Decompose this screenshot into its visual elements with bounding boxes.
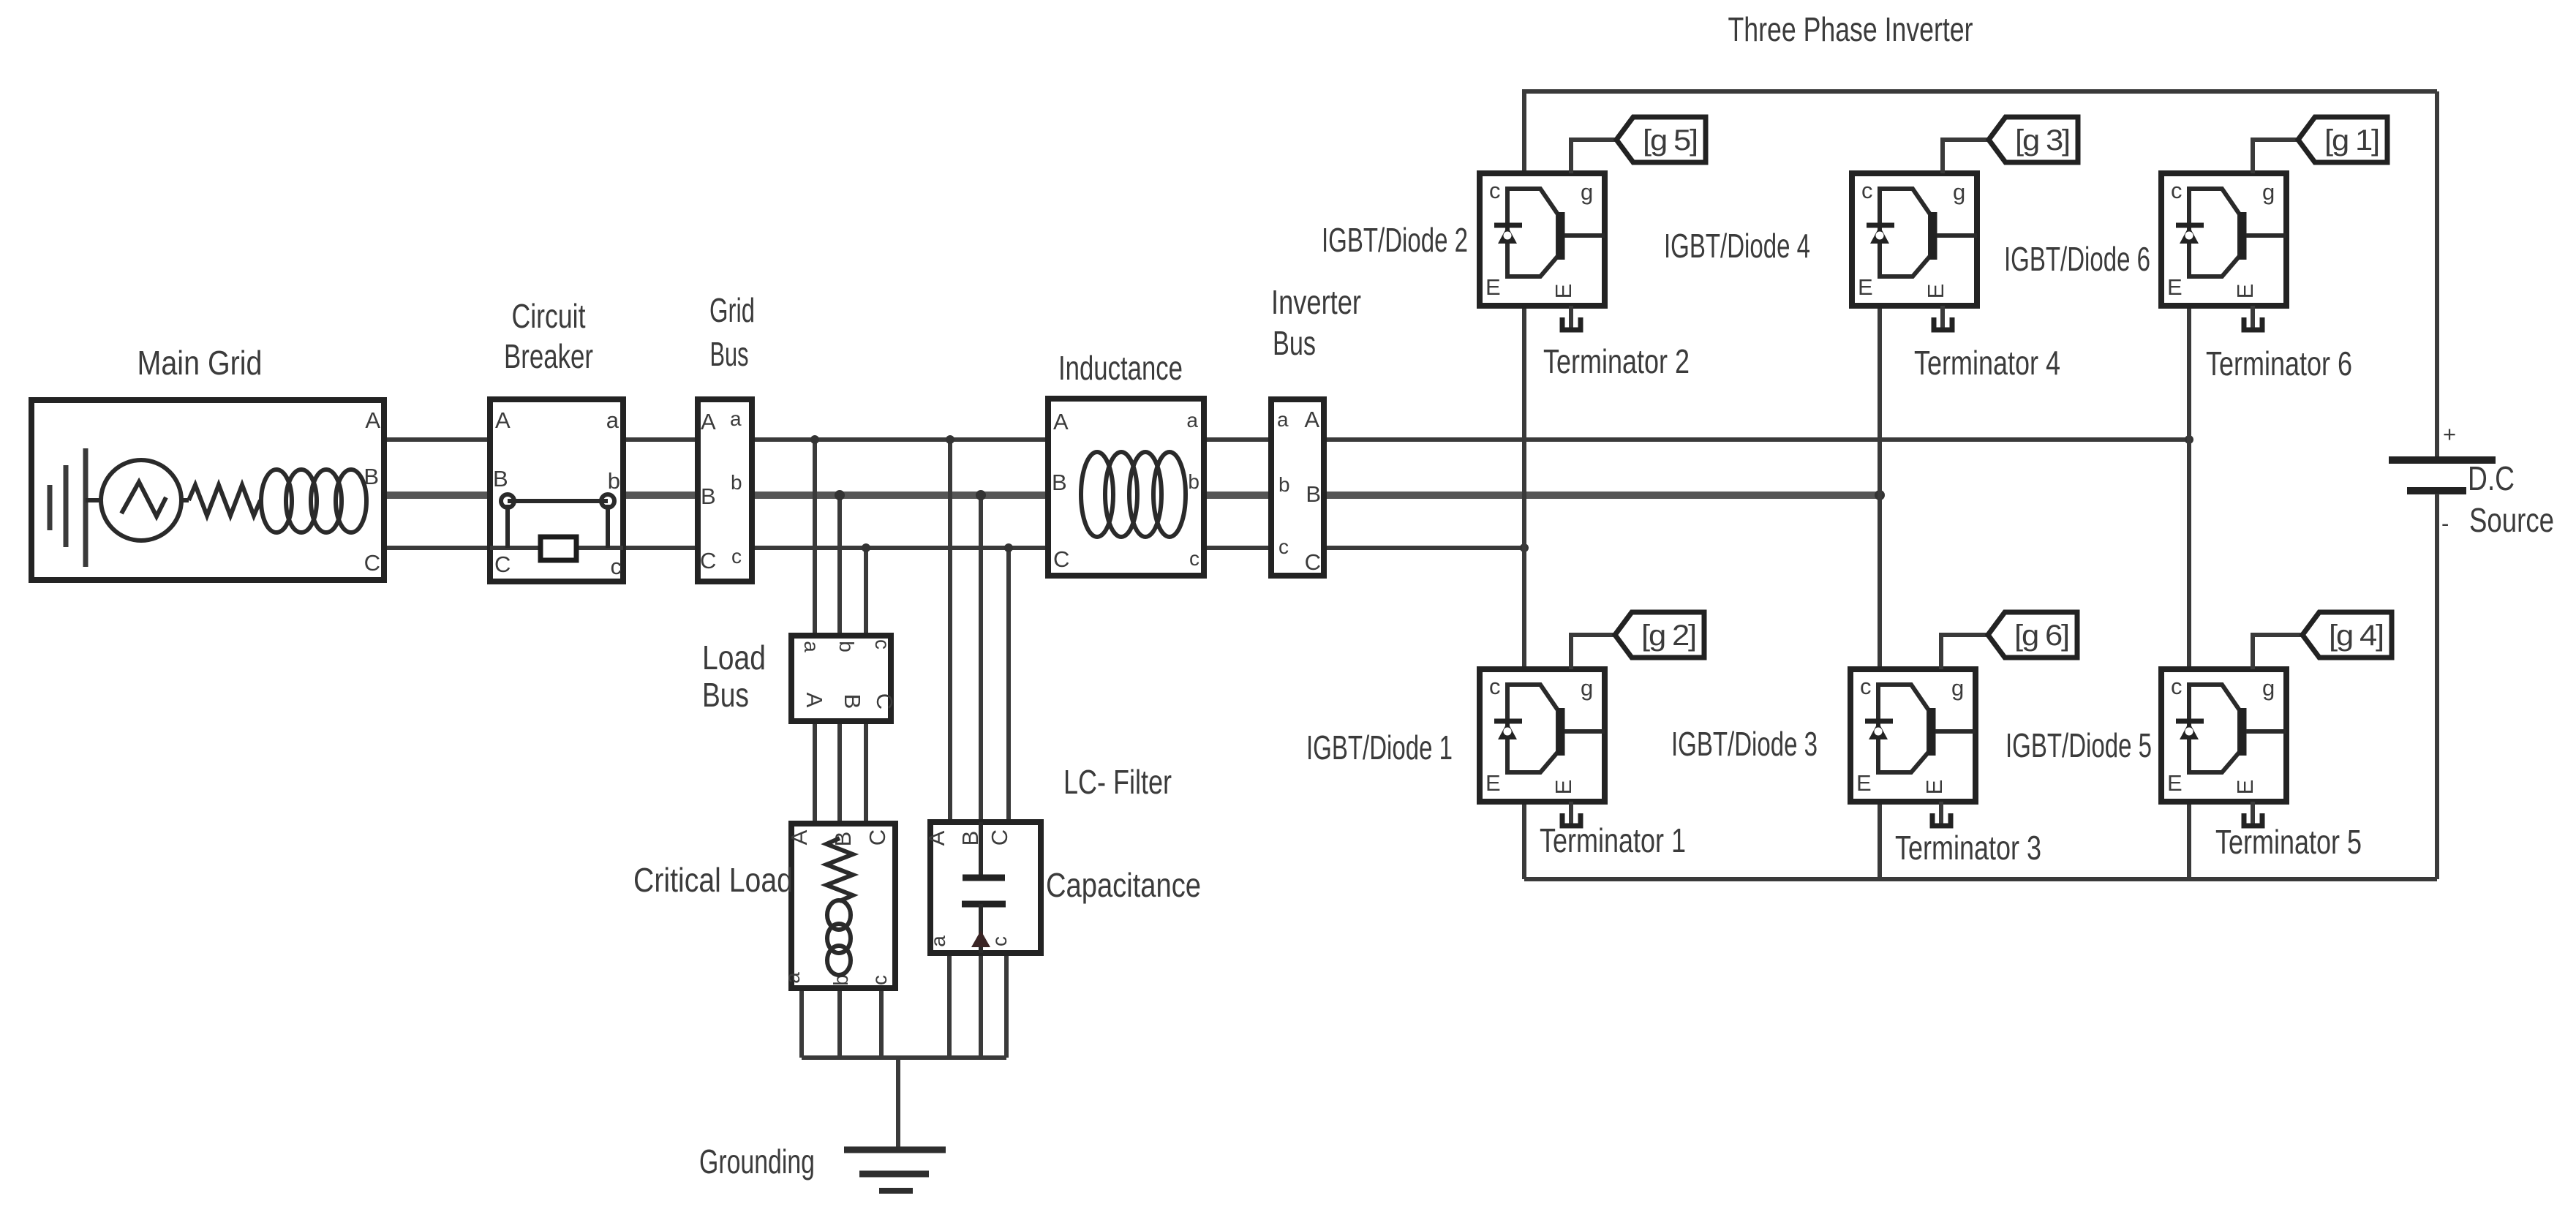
svg-text:B: B	[364, 464, 379, 489]
breaker contact line	[508, 499, 608, 503]
series inductor coil	[261, 470, 366, 532]
wire phase C: grid bus to inductance	[752, 546, 1048, 550]
junction phase A / load bus tap	[810, 435, 819, 444]
svg-text:IGBT/Diode 6: IGBT/Diode 6	[2004, 240, 2150, 278]
wire phase A: grid bus to inductance	[752, 437, 1048, 442]
wire load bus to critical load B	[837, 721, 842, 824]
wire capacitance b to ground bus	[979, 953, 983, 1058]
svg-text:A: A	[495, 407, 511, 433]
svg-text:LC- Filter: LC- Filter	[1063, 763, 1172, 801]
wire to AC source	[86, 498, 102, 502]
wire leg1 mid (IGBT2 E to IGBT1 c)	[1522, 306, 1526, 669]
svg-text:[g 2]: [g 2]	[1641, 620, 1695, 652]
svg-text:[g 3]: [g 3]	[2015, 124, 2069, 157]
svg-text:A: A	[924, 830, 949, 846]
wire phase B: grid bus to inductance	[752, 492, 1048, 499]
svg-text:a: a	[781, 972, 804, 984]
block Capacitance	[924, 822, 1041, 953]
wire source to resistor	[181, 498, 189, 502]
svg-text:a: a	[606, 407, 619, 433]
wire critical load b to ground bus	[837, 988, 842, 1058]
svg-text:c: c	[871, 639, 894, 649]
terminator 2	[1562, 306, 1581, 330]
svg-text:B: B	[1052, 470, 1067, 495]
goto tag g3	[1989, 117, 2078, 162]
svg-text:B: B	[701, 483, 716, 509]
svg-text:C: C	[364, 550, 380, 576]
wire phase B: inverter bus to inverter leg 2	[1324, 492, 1880, 499]
inductance coil	[1081, 452, 1186, 537]
svg-text:A: A	[802, 693, 827, 708]
svg-text:C: C	[1053, 546, 1069, 572]
svg-text:b: b	[608, 468, 620, 494]
goto tag g6 wire	[1941, 635, 1988, 669]
wire phase B: main grid to breaker	[384, 492, 490, 499]
block Main Grid	[31, 400, 384, 580]
svg-text:IGBT/Diode 3: IGBT/Diode 3	[1671, 725, 1818, 763]
svg-text:a: a	[800, 641, 823, 652]
svg-text:Inductance: Inductance	[1058, 349, 1183, 387]
svg-text:IGBT/Diode 4: IGBT/Diode 4	[1664, 227, 1810, 265]
svg-text:[g 5]: [g 5]	[1643, 124, 1697, 157]
DC source battery	[2389, 91, 2496, 879]
goto tag g5 wire	[1571, 140, 1616, 173]
wire capacitance a to ground bus	[947, 953, 952, 1058]
svg-text:c: c	[868, 975, 891, 985]
wire phase B: inductance to inverter bus	[1204, 492, 1271, 499]
breaker coil rectangle	[541, 537, 576, 560]
wire tap B to load bus	[837, 495, 842, 636]
svg-text:C: C	[872, 693, 897, 709]
breaker left stub	[505, 505, 510, 548]
wire ground stem	[896, 1058, 900, 1150]
terminator 3	[1932, 802, 1951, 826]
wire tap B to capacitance	[979, 495, 983, 822]
AC source sine	[121, 482, 166, 516]
svg-text:Bus: Bus	[1273, 324, 1316, 362]
ground symbol	[844, 1150, 946, 1191]
svg-text:IGBT/Diode 2: IGBT/Diode 2	[1322, 221, 1468, 259]
svg-text:D.C: D.C	[2468, 459, 2515, 497]
ground bus wire	[802, 1055, 1006, 1060]
block Critical Load	[781, 824, 895, 988]
wire capacitance c to ground bus	[1004, 953, 1009, 1058]
svg-text:c: c	[1278, 535, 1289, 558]
breaker C through line	[490, 546, 623, 550]
critical load resistor	[826, 838, 853, 901]
wire leg2 bottom (IGBT3 E to rail)	[1878, 802, 1882, 879]
block Inductance	[1048, 399, 1204, 576]
svg-text:C: C	[700, 548, 716, 573]
DC+ top rail	[1524, 91, 2437, 173]
block Grid Bus	[698, 399, 752, 581]
junction phase A / inverter leg 3	[2185, 435, 2193, 444]
wire critical load c to ground bus	[879, 988, 884, 1058]
svg-text:+: +	[2443, 421, 2456, 447]
junction phase C / capacitance tap	[1004, 543, 1013, 552]
breaker right contact circle	[601, 494, 614, 508]
svg-text:Circuit: Circuit	[512, 297, 586, 335]
arrow at port b	[971, 930, 990, 947]
goto tag g2 wire	[1571, 635, 1615, 669]
terminator 4	[1934, 306, 1952, 330]
wire phase C: inverter bus to inverter leg 1	[1324, 546, 1524, 550]
wire leg2 mid (IGBT4 E to IGBT3 c)	[1878, 306, 1882, 669]
svg-text:Bus: Bus	[710, 335, 749, 373]
goto tag g5	[1616, 117, 1706, 162]
svg-text:c: c	[731, 545, 742, 568]
wire critical load a to ground bus	[799, 988, 804, 1058]
wire tap C to load bus	[864, 548, 868, 636]
wire phase C: main grid to breaker	[384, 546, 490, 550]
AC source circle	[101, 460, 181, 541]
wire leg1 bottom (IGBT1 E to rail)	[1522, 802, 1526, 879]
IGBT/Diode 6 block	[2161, 173, 2286, 306]
svg-text:Main Grid: Main Grid	[138, 344, 263, 382]
junction phase C / load bus tap	[862, 543, 870, 552]
junction phase B / inverter leg 2	[1875, 490, 1885, 500]
goto tag g1 wire	[2253, 140, 2298, 173]
svg-text:Load: Load	[702, 639, 766, 677]
junction phase B / capacitance tap	[976, 490, 986, 500]
svg-text:Critical Load: Critical Load	[633, 861, 793, 899]
IGBT/Diode 1 block	[1480, 669, 1605, 802]
svg-text:IGBT/Diode 1: IGBT/Diode 1	[1306, 728, 1453, 767]
terminator 6	[2244, 306, 2262, 330]
svg-text:a: a	[927, 935, 949, 947]
svg-text:C: C	[865, 829, 890, 846]
wire tap A to load bus	[813, 440, 817, 636]
svg-text:A: A	[365, 407, 380, 433]
svg-text:Terminator 1: Terminator 1	[1540, 821, 1686, 859]
capacitor symbol	[979, 822, 983, 878]
wire tap C to capacitance	[1006, 548, 1011, 822]
svg-text:[g 1]: [g 1]	[2324, 124, 2379, 157]
svg-text:b: b	[731, 471, 742, 494]
svg-text:C: C	[1305, 549, 1321, 575]
svg-text:c: c	[1189, 547, 1200, 570]
wire phase A: inductance to inverter bus	[1204, 437, 1271, 442]
breaker right stub	[606, 505, 610, 548]
block Inverter Bus	[1271, 399, 1324, 576]
svg-text:Terminator 2: Terminator 2	[1543, 342, 1690, 380]
svg-text:Grid: Grid	[709, 291, 755, 329]
junction phase C / inverter leg 1	[1520, 543, 1529, 552]
goto tag g3 wire	[1943, 140, 1989, 173]
svg-text:B: B	[840, 694, 865, 709]
svg-text:Three Phase Inverter: Three Phase Inverter	[1728, 10, 1973, 48]
terminator 1	[1562, 802, 1581, 826]
svg-text:B: B	[493, 466, 508, 492]
svg-text:Bus: Bus	[702, 676, 749, 714]
svg-text:c: c	[988, 936, 1011, 946]
svg-text:C: C	[494, 551, 511, 577]
wire load bus to critical load C	[864, 721, 868, 824]
IGBT/Diode 3 block	[1850, 669, 1976, 802]
svg-text:Inverter: Inverter	[1271, 283, 1361, 321]
svg-text:Terminator 3: Terminator 3	[1895, 829, 2041, 867]
wire phase B: breaker to grid bus	[623, 492, 698, 499]
svg-text:IGBT/Diode 5: IGBT/Diode 5	[2006, 726, 2152, 764]
svg-text:a: a	[1277, 408, 1289, 431]
ground bars inside main grid	[50, 448, 86, 567]
resistor zigzag	[189, 485, 260, 516]
goto tag g4	[2302, 612, 2392, 658]
svg-text:a: a	[730, 407, 742, 430]
block Circuit Breaker	[490, 399, 623, 581]
svg-text:A: A	[1053, 409, 1069, 434]
wire phase C: inductance to inverter bus	[1204, 546, 1271, 550]
svg-text:-: -	[2441, 511, 2449, 536]
svg-text:[g 4]: [g 4]	[2329, 620, 2383, 652]
svg-text:b: b	[1278, 473, 1290, 496]
svg-text:a: a	[1186, 409, 1198, 432]
IGBT/Diode 5 block	[2161, 669, 2286, 802]
IGBT/Diode 4 block	[1852, 173, 1977, 306]
junction phase B / load bus tap	[835, 490, 845, 500]
svg-text:Breaker: Breaker	[504, 337, 593, 375]
wire leg3 bottom (IGBT5 E to rail)	[2187, 802, 2191, 879]
svg-text:Terminator 6: Terminator 6	[2206, 344, 2352, 383]
goto tag g1	[2298, 117, 2387, 162]
svg-text:A: A	[786, 829, 812, 845]
svg-text:[g 6]: [g 6]	[2014, 620, 2068, 652]
svg-text:Terminator 5: Terminator 5	[2215, 823, 2362, 861]
wire phase A: main grid to breaker	[384, 437, 490, 442]
svg-text:C: C	[987, 829, 1012, 846]
wire leg3 mid (IGBT6 E to IGBT5 c)	[2187, 306, 2191, 669]
block Load Bus	[791, 636, 897, 721]
svg-text:Terminator 4: Terminator 4	[1914, 344, 2060, 382]
wire tap A to capacitance	[948, 440, 952, 822]
goto tag g2	[1615, 612, 1704, 658]
goto tag g6	[1988, 612, 2077, 658]
svg-text:B: B	[1306, 481, 1321, 507]
svg-text:b: b	[835, 641, 858, 652]
svg-text:Capacitance: Capacitance	[1046, 866, 1201, 904]
svg-text:c: c	[611, 554, 622, 579]
svg-text:A: A	[701, 409, 716, 434]
terminator 5	[2244, 802, 2262, 826]
wire load bus to critical load A	[813, 721, 817, 824]
svg-text:b: b	[1188, 470, 1200, 493]
svg-text:A: A	[1304, 407, 1319, 432]
svg-text:Grounding: Grounding	[699, 1142, 815, 1181]
wire phase C: breaker to grid bus	[623, 546, 698, 550]
wire phase A: inverter bus to inverter leg 3	[1324, 437, 2189, 442]
DC- bottom rail	[1524, 877, 2437, 881]
breaker left contact circle	[501, 494, 514, 508]
IGBT/Diode 2 block	[1480, 173, 1605, 306]
critical load inductor	[827, 900, 851, 975]
svg-text:Source: Source	[2469, 501, 2554, 539]
junction phase A / capacitance tap	[946, 435, 954, 444]
goto tag g4 wire	[2253, 635, 2302, 669]
wire phase A: breaker to grid bus	[623, 437, 698, 442]
